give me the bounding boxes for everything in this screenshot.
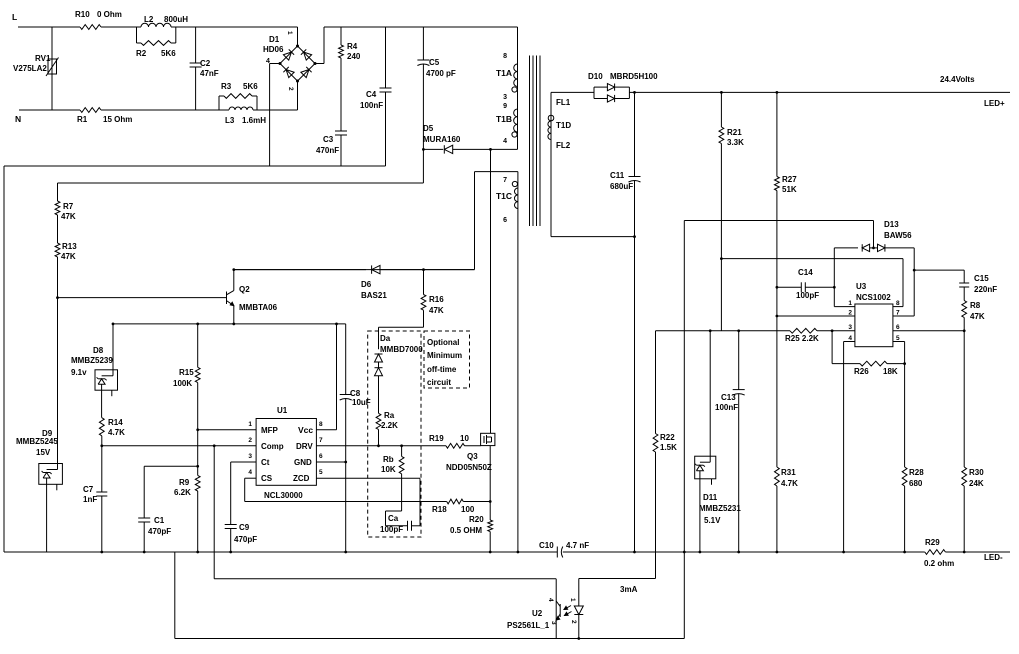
svg-text:R3: R3 <box>221 82 232 91</box>
svg-text:PS2561L_1: PS2561L_1 <box>507 621 550 630</box>
svg-text:U2: U2 <box>532 609 543 618</box>
svg-text:LED+: LED+ <box>984 99 1005 108</box>
svg-text:U3: U3 <box>856 282 867 291</box>
svg-text:R9: R9 <box>179 478 190 487</box>
svg-text:ZCD: ZCD <box>293 474 310 483</box>
svg-text:4: 4 <box>547 598 554 602</box>
svg-text:51K: 51K <box>782 185 797 194</box>
svg-text:15V: 15V <box>36 448 51 457</box>
svg-text:C15: C15 <box>974 274 989 283</box>
svg-text:5K6: 5K6 <box>161 49 176 58</box>
svg-text:circuit: circuit <box>427 378 451 387</box>
svg-text:18K: 18K <box>883 367 898 376</box>
svg-text:BAS21: BAS21 <box>361 291 387 300</box>
svg-text:FL1: FL1 <box>556 98 571 107</box>
svg-text:R20: R20 <box>469 515 484 524</box>
svg-text:C13: C13 <box>721 393 736 402</box>
svg-text:MURA160: MURA160 <box>423 135 461 144</box>
svg-text:CS: CS <box>261 474 273 483</box>
svg-text:Ca: Ca <box>388 514 399 523</box>
svg-text:9.1v: 9.1v <box>71 368 87 377</box>
svg-text:Comp: Comp <box>261 442 284 451</box>
svg-text:R25 2.2K: R25 2.2K <box>785 334 819 343</box>
svg-text:C11: C11 <box>610 171 625 180</box>
svg-text:100nF: 100nF <box>360 101 383 110</box>
svg-text:24.4Volts: 24.4Volts <box>940 75 975 84</box>
svg-text:3: 3 <box>550 621 557 625</box>
svg-text:4: 4 <box>248 469 252 476</box>
svg-text:L3: L3 <box>225 116 235 125</box>
svg-text:R13: R13 <box>62 242 77 251</box>
svg-text:470pF: 470pF <box>234 535 257 544</box>
svg-text:1nF: 1nF <box>83 495 97 504</box>
svg-text:R1: R1 <box>77 115 88 124</box>
svg-text:0.2 ohm: 0.2 ohm <box>924 559 954 568</box>
svg-text:2.2K: 2.2K <box>381 421 398 430</box>
svg-text:L2: L2 <box>144 15 154 24</box>
svg-text:RV1: RV1 <box>35 54 51 63</box>
svg-text:4700 pF: 4700 pF <box>426 69 456 78</box>
svg-text:D6: D6 <box>361 280 372 289</box>
svg-text:FL2: FL2 <box>556 141 571 150</box>
svg-text:NCS1002: NCS1002 <box>856 293 891 302</box>
svg-text:6: 6 <box>503 217 507 224</box>
svg-text:R18: R18 <box>432 505 447 514</box>
svg-text:1.6mH: 1.6mH <box>242 116 266 125</box>
svg-text:D5: D5 <box>423 124 434 133</box>
svg-text:Q3: Q3 <box>467 452 478 461</box>
svg-text:R29: R29 <box>925 538 940 547</box>
svg-text:8: 8 <box>503 53 507 60</box>
svg-text:T1A: T1A <box>496 68 512 78</box>
svg-text:Rb: Rb <box>383 455 394 464</box>
svg-text:R31: R31 <box>781 468 796 477</box>
svg-text:DRV: DRV <box>296 442 313 451</box>
svg-text:680uF: 680uF <box>610 182 633 191</box>
svg-text:100pF: 100pF <box>380 525 403 534</box>
svg-text:D8: D8 <box>93 346 104 355</box>
svg-text:D13: D13 <box>884 220 899 229</box>
svg-text:2: 2 <box>570 620 577 624</box>
svg-text:MMBZ5231: MMBZ5231 <box>699 504 741 513</box>
svg-text:Ra: Ra <box>384 411 395 420</box>
svg-text:MMBZ5245: MMBZ5245 <box>16 437 58 446</box>
svg-text:R14: R14 <box>108 418 123 427</box>
svg-text:U1: U1 <box>277 406 288 415</box>
svg-text:T1B: T1B <box>496 114 512 124</box>
svg-text:10K: 10K <box>381 465 396 474</box>
svg-text:R21: R21 <box>727 128 742 137</box>
svg-text:6: 6 <box>319 453 323 460</box>
svg-text:C5: C5 <box>429 58 440 67</box>
svg-text:MBRD5H100: MBRD5H100 <box>610 72 658 81</box>
svg-text:470pF: 470pF <box>148 527 171 536</box>
svg-text:4: 4 <box>848 335 852 342</box>
svg-text:GND: GND <box>294 458 312 467</box>
svg-text:R16: R16 <box>429 295 444 304</box>
svg-text:5: 5 <box>896 335 900 342</box>
svg-text:7: 7 <box>319 437 323 444</box>
svg-text:R30: R30 <box>969 468 984 477</box>
svg-text:1: 1 <box>248 421 252 428</box>
svg-text:4: 4 <box>266 58 270 65</box>
svg-text:1: 1 <box>286 31 293 35</box>
svg-text:4.7 nF: 4.7 nF <box>566 541 589 550</box>
svg-text:1: 1 <box>569 598 576 602</box>
svg-text:Optional: Optional <box>427 338 459 347</box>
svg-text:10: 10 <box>460 434 469 443</box>
svg-text:R4: R4 <box>347 42 358 51</box>
svg-text:2: 2 <box>248 437 252 444</box>
svg-text:D11: D11 <box>703 493 718 502</box>
svg-text:R2: R2 <box>136 49 147 58</box>
svg-text:7: 7 <box>896 310 900 317</box>
svg-text:470nF: 470nF <box>316 146 339 155</box>
svg-text:0.5 OHM: 0.5 OHM <box>450 526 482 535</box>
svg-text:100: 100 <box>461 505 475 514</box>
svg-text:4.7K: 4.7K <box>108 428 125 437</box>
svg-text:7: 7 <box>503 177 507 184</box>
svg-text:MMBTA06: MMBTA06 <box>239 303 278 312</box>
svg-text:3: 3 <box>503 94 507 101</box>
svg-text:800uH: 800uH <box>164 15 188 24</box>
svg-text:0 Ohm: 0 Ohm <box>97 10 122 19</box>
svg-text:9: 9 <box>503 103 507 110</box>
svg-text:C1: C1 <box>154 516 165 525</box>
svg-text:3.3K: 3.3K <box>727 138 744 147</box>
svg-text:T1C: T1C <box>496 191 512 201</box>
svg-text:100K: 100K <box>173 379 192 388</box>
svg-text:680: 680 <box>909 479 923 488</box>
svg-text:1.5K: 1.5K <box>660 443 677 452</box>
svg-text:NDD05N50Z: NDD05N50Z <box>446 463 492 472</box>
svg-text:5: 5 <box>319 469 323 476</box>
svg-text:15 Ohm: 15 Ohm <box>103 115 132 124</box>
svg-text:C4: C4 <box>366 90 377 99</box>
svg-text:C9: C9 <box>239 523 250 532</box>
svg-text:4: 4 <box>503 138 507 145</box>
svg-text:3: 3 <box>248 453 252 460</box>
svg-text:D1: D1 <box>269 35 280 44</box>
svg-text:5.1V: 5.1V <box>704 516 721 525</box>
svg-text:2: 2 <box>848 310 852 317</box>
svg-text:24K: 24K <box>969 479 984 488</box>
svg-text:HD06: HD06 <box>263 45 284 54</box>
svg-text:47K: 47K <box>429 306 444 315</box>
svg-text:C2: C2 <box>200 59 211 68</box>
svg-text:N: N <box>15 114 21 124</box>
svg-text:T1D: T1D <box>556 121 571 130</box>
svg-text:5K6: 5K6 <box>243 82 258 91</box>
svg-text:Da: Da <box>380 334 391 343</box>
svg-text:BAW56: BAW56 <box>884 231 912 240</box>
svg-text:2: 2 <box>287 87 294 91</box>
svg-text:6.2K: 6.2K <box>174 488 191 497</box>
svg-text:C3: C3 <box>323 135 334 144</box>
svg-text:1: 1 <box>848 300 852 307</box>
svg-text:LED-: LED- <box>984 553 1003 562</box>
svg-text:C14: C14 <box>798 268 813 277</box>
svg-text:C7: C7 <box>83 485 94 494</box>
svg-text:Vcc: Vcc <box>298 425 313 435</box>
svg-text:R28: R28 <box>909 468 924 477</box>
svg-text:Ct: Ct <box>261 458 270 467</box>
svg-text:R15: R15 <box>179 368 194 377</box>
svg-text:8: 8 <box>896 300 900 307</box>
svg-text:V275LA2: V275LA2 <box>13 64 47 73</box>
svg-text:220nF: 220nF <box>974 285 997 294</box>
svg-text:240: 240 <box>347 52 361 61</box>
svg-text:6: 6 <box>896 324 900 331</box>
svg-text:3mA: 3mA <box>620 585 638 594</box>
svg-text:C8: C8 <box>350 389 361 398</box>
svg-text:47nF: 47nF <box>200 69 219 78</box>
svg-text:4.7K: 4.7K <box>781 479 798 488</box>
svg-text:MFP: MFP <box>261 426 279 435</box>
svg-text:3: 3 <box>848 324 852 331</box>
svg-text:R8: R8 <box>970 301 981 310</box>
svg-text:100pF: 100pF <box>796 291 819 300</box>
svg-text:100nF: 100nF <box>715 403 738 412</box>
svg-text:R27: R27 <box>782 175 797 184</box>
svg-text:MMBD7000: MMBD7000 <box>380 345 423 354</box>
svg-text:R7: R7 <box>63 202 74 211</box>
svg-text:L: L <box>12 12 17 22</box>
svg-text:off-time: off-time <box>427 365 457 374</box>
svg-text:47K: 47K <box>61 212 76 221</box>
svg-text:R26: R26 <box>854 367 869 376</box>
svg-text:NCL30000: NCL30000 <box>264 491 303 500</box>
svg-text:C10: C10 <box>539 541 554 550</box>
svg-text:Minimum: Minimum <box>427 351 462 360</box>
svg-text:8: 8 <box>319 421 323 428</box>
svg-text:Q2: Q2 <box>239 285 250 294</box>
svg-text:47K: 47K <box>970 312 985 321</box>
svg-text:R19: R19 <box>429 434 444 443</box>
svg-text:R10: R10 <box>75 10 90 19</box>
svg-text:R22: R22 <box>660 433 675 442</box>
svg-text:47K: 47K <box>61 252 76 261</box>
svg-text:D10: D10 <box>588 72 603 81</box>
svg-text:MMBZ5239: MMBZ5239 <box>71 356 113 365</box>
